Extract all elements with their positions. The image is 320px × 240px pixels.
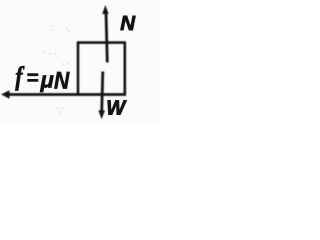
arrowhead normal force (up) [102,5,108,14]
wire friction-force line along block bottom [6,93,126,96]
svg-text:N: N [120,12,136,35]
svg-text:=: = [27,67,39,90]
svg-text:N: N [54,67,70,94]
block box left edge [77,43,80,95]
svg-text:μ: μ [40,68,54,93]
arrowhead friction force (left) [1,90,10,99]
block box right edge [124,43,127,95]
svg-text:W: W [106,98,127,120]
block box top edge [77,41,126,44]
wire normal-force shaft [106,13,107,63]
arrowhead weight force (down) [98,110,105,119]
wire weight-force shaft [102,72,103,112]
svg-text:f: f [15,63,25,91]
